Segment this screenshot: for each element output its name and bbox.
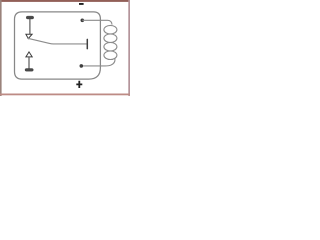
switch armature blade (diagonal + horizontal) bbox=[27, 38, 86, 44]
wire: lower coil lead bbox=[81, 58, 115, 66]
armature actuator top: down arrowhead bbox=[26, 34, 32, 38]
coil L1 (solenoid loops) bbox=[104, 25, 117, 59]
background bbox=[0, 0, 130, 96]
armature actuator top: stem bbox=[29, 19, 31, 34]
label: plus polarity bbox=[76, 81, 82, 88]
relay case (rounded enclosure) bbox=[15, 12, 101, 79]
armature actuator bottom: stem bbox=[28, 57, 30, 69]
label: minus polarity bbox=[79, 3, 84, 5]
node: coil upper terminal bbox=[81, 19, 85, 23]
node: coil lower terminal bbox=[80, 64, 84, 68]
armature actuator bottom: up arrowhead bbox=[26, 52, 32, 57]
armature actuator bottom: base bar bbox=[25, 69, 33, 72]
armature actuator top: mounting bar bbox=[26, 16, 34, 19]
fixed contact bar bbox=[86, 39, 88, 48]
outer red frame (decorative border) bbox=[0, 0, 130, 96]
wire: upper coil lead bbox=[82, 20, 112, 24]
